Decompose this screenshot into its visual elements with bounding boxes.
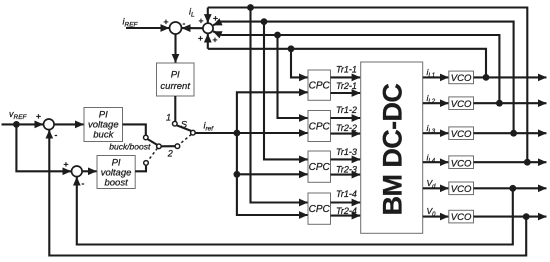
wire Vd feedback to boost summer (77, 177, 513, 244)
summing junction boost error (72, 166, 83, 177)
wire Tr1-2 CPC2 to BM (331, 117, 361, 119)
switch S contact 2 (175, 144, 180, 149)
wire buck summer to PI voltage buck (54, 123, 83, 125)
svg-text:buck: buck (93, 130, 114, 141)
wire V0 feedback to buck summer (49, 130, 526, 255)
wire Tr1-4 CPC4 to BM (331, 201, 361, 203)
svg-text:1: 1 (166, 113, 171, 123)
svg-text:CPC: CPC (309, 122, 331, 133)
wire current summer to PI current (174, 34, 176, 63)
wire PI voltage boost to boost contact (135, 165, 146, 171)
svg-text:Tr2-3: Tr2-3 (336, 164, 357, 174)
wire iref branch to CPC1 lower input (237, 92, 308, 133)
wire iL summer output to current summer (182, 27, 203, 29)
switch S arm (177, 125, 191, 131)
svg-text:Tr1-1: Tr1-1 (336, 65, 357, 75)
wire VCO1 output (474, 76, 547, 78)
wire Tr2-4 CPC4 to BM (331, 215, 361, 217)
svg-text:buck/boost: buck/boost (109, 142, 151, 152)
junction V0 feedback (523, 213, 530, 220)
wire feedback line 4 (208, 49, 486, 78)
block CPC 4 (308, 193, 331, 224)
wire line3 down to CPC2 upper input (278, 35, 308, 118)
svg-text:+: + (36, 111, 41, 121)
svg-text:Tr2-4: Tr2-4 (336, 206, 357, 216)
wire vREF branch to boost summer (16, 126, 71, 171)
block PI voltage boost (97, 156, 135, 189)
svg-text:+: + (213, 13, 218, 23)
svg-text:+: + (64, 159, 69, 169)
wire VCO3 output (474, 132, 547, 134)
switch buck/boost pole arm (148, 139, 158, 145)
switch buck/boost pole (157, 144, 162, 149)
junction iref upper (234, 130, 241, 137)
junction line3 to CPC2 (274, 32, 281, 39)
wire VCO5 output (474, 187, 547, 189)
wire Tr1-1 CPC1 to BM (331, 76, 361, 78)
switch S dashed arm (179, 134, 191, 144)
svg-text:vREF: vREF (9, 109, 28, 121)
wire BM output Vd (423, 187, 449, 189)
wire iL2 feedback arrow into summer lower right (213, 31, 226, 35)
wire VCO6 output (474, 216, 547, 218)
block CPC 2 (308, 111, 331, 142)
block VCO 1 (449, 71, 474, 84)
svg-text:VCO: VCO (451, 99, 472, 110)
svg-text:PI: PI (171, 70, 180, 81)
junction iref lower (234, 171, 241, 178)
block VCO 6 (449, 210, 474, 223)
block VCO 5 (449, 182, 474, 195)
svg-text:Tr1-3: Tr1-3 (336, 147, 357, 157)
wire iL4 feedback arrow into summer top (207, 8, 209, 23)
svg-text:-: - (82, 178, 85, 188)
wire vREF input (2, 123, 44, 125)
wire iL1 feedback arrow into summer bottom (207, 34, 209, 49)
wire PI voltage buck to buck contact (123, 124, 146, 135)
svg-text:CPC: CPC (309, 81, 331, 92)
switch buck contact (144, 135, 149, 140)
wire BM output iL4 (423, 161, 449, 163)
junction iL2 feedback (496, 100, 503, 107)
junction iL3 feedback (510, 130, 517, 137)
wire line2 down to CPC3 upper input (264, 22, 308, 160)
junction vREF branch (13, 121, 20, 128)
wire iL3 feedback arrow into summer upper right (213, 22, 226, 26)
wire BM output iL3 (423, 132, 449, 134)
block VCO 2 (449, 97, 474, 110)
switch S contact 1 (173, 121, 178, 126)
junction iL1 feedback (483, 74, 490, 81)
switch boost contact (144, 161, 149, 166)
wire Tr2-2 CPC2 to BM (331, 133, 361, 135)
svg-text:iREF: iREF (123, 17, 139, 29)
svg-text:iref: iref (204, 121, 215, 133)
summing junction buck error (44, 119, 55, 130)
wire boost summer to PI voltage boost (82, 170, 96, 172)
block VCO 3 (449, 127, 474, 140)
svg-text:Tr2-1: Tr2-1 (336, 81, 357, 91)
svg-text:iL3: iL3 (427, 123, 436, 135)
junction line2 to CPC3 (261, 18, 268, 25)
svg-text:2: 2 (167, 149, 173, 159)
wire BM output iL2 (423, 102, 449, 104)
wire pole to contact 2 (161, 145, 175, 147)
wire line4 down to CPC1 upper input (291, 49, 308, 78)
wire VCO4 output (474, 161, 547, 163)
svg-text:Tr1-4: Tr1-4 (336, 189, 357, 199)
wire PI current to switch contact 1 (174, 96, 176, 121)
junction iL4 feedback (524, 159, 531, 166)
svg-text:+: + (198, 33, 203, 43)
svg-text:VCO: VCO (451, 158, 472, 169)
wire Tr2-1 CPC1 to BM (331, 92, 361, 94)
summing junction current error (170, 22, 182, 34)
wire iref branch to CPC3 lower input (237, 173, 308, 175)
junction line1 to CPC4 (247, 4, 254, 11)
wire BM output iL1 (423, 76, 449, 78)
svg-text:iL1: iL1 (427, 67, 436, 79)
switch buck/boost dashed arm (148, 148, 158, 161)
wire VCO2 output (474, 102, 547, 104)
block CPC 1 (308, 70, 331, 100)
switch S pole (191, 130, 196, 135)
svg-text:+: + (213, 35, 218, 45)
wire iref branch down (236, 133, 238, 174)
svg-text:CPC: CPC (309, 204, 331, 215)
wire feedback line 3 (225, 35, 499, 103)
svg-text:current: current (160, 81, 190, 92)
svg-text:boost: boost (104, 178, 128, 189)
svg-text:iL: iL (189, 7, 195, 19)
wire iREF input (126, 27, 169, 29)
svg-text:BM DC-DC: BM DC-DC (378, 84, 408, 216)
svg-text:VCO: VCO (451, 212, 472, 223)
wire Tr1-3 CPC3 to BM (331, 158, 361, 160)
junction line4 to CPC1 (288, 45, 295, 52)
svg-text:iL4: iL4 (427, 152, 436, 164)
block PI current (157, 63, 195, 96)
svg-text:VCO: VCO (451, 129, 472, 140)
svg-text:Tr2-2: Tr2-2 (336, 123, 357, 133)
svg-text:iL2: iL2 (427, 93, 436, 105)
svg-text:Tr1-2: Tr1-2 (336, 105, 357, 115)
wire iref branch to CPC4 lower input (237, 174, 308, 215)
wire feedback line 2 (225, 22, 514, 134)
svg-text:+: + (199, 16, 204, 26)
junction Vd feedback (509, 185, 516, 192)
block PI voltage buck (84, 108, 123, 142)
wire iref trunk to CPC2 lower input (195, 132, 307, 134)
block CPC 3 (308, 151, 331, 182)
summing junction iL total (203, 23, 213, 33)
wire BM output V0 (423, 216, 449, 218)
block VCO 4 (449, 156, 474, 169)
svg-text:+: + (164, 17, 169, 27)
block BM DC-DC (361, 62, 423, 233)
wire feedback line 1 top (208, 8, 528, 163)
svg-text:-: - (183, 18, 186, 28)
svg-text:VCO: VCO (451, 184, 472, 195)
wire line1 down to CPC4 upper input (251, 8, 308, 203)
svg-text:-: - (55, 130, 58, 140)
wire Tr2-3 CPC3 to BM (331, 174, 361, 176)
svg-text:CPC: CPC (309, 162, 331, 173)
svg-text:VCO: VCO (451, 73, 472, 84)
